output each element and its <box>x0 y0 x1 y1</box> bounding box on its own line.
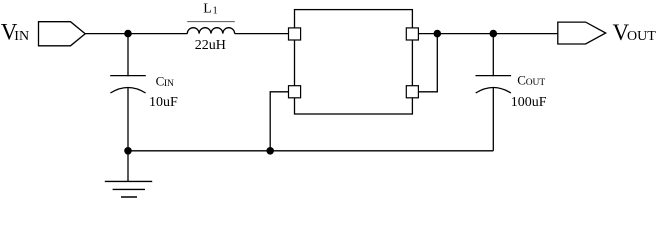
svg-text:IN: IN <box>164 79 174 89</box>
wire IC output pin to VOUT <box>418 33 557 35</box>
capacitor COUT <box>476 76 512 93</box>
label CIN <box>156 73 174 89</box>
wire CIN bottom to ground rail <box>127 88 129 151</box>
svg-text:IN: IN <box>14 29 29 44</box>
svg-text:100uF: 100uF <box>511 95 547 110</box>
IC pin bottom-right <box>406 86 418 98</box>
inductor L1 <box>187 22 235 34</box>
IC pin top-right <box>406 28 418 40</box>
output port connector VOUT <box>558 22 606 44</box>
wire COUT bottom to ground rail <box>492 88 494 151</box>
node junction output/COUT <box>490 30 498 38</box>
wire VIN to inductor <box>85 33 187 35</box>
svg-text:C: C <box>517 73 526 88</box>
net label VIN <box>1 20 29 45</box>
label COUT <box>517 73 545 88</box>
net label VOUT <box>613 20 656 45</box>
svg-text:OUT: OUT <box>627 29 656 44</box>
svg-text:1: 1 <box>213 5 218 16</box>
label L1 <box>203 2 217 17</box>
IC pin bottom-left <box>289 86 301 98</box>
node junction feedback <box>434 30 442 38</box>
wire inductor to IC pin1 <box>235 33 289 35</box>
wire feedback to IC pin <box>418 34 437 92</box>
node junction ground/IC return <box>266 147 274 155</box>
svg-text:L: L <box>203 2 212 17</box>
ground symbol <box>105 151 152 197</box>
IC pin top-left <box>289 28 301 40</box>
input port connector VIN <box>39 22 86 46</box>
node junction input/CIN <box>124 30 132 38</box>
node junction ground/CIN <box>124 147 132 155</box>
wire node to COUT top <box>492 34 494 77</box>
IC U1 body <box>295 10 413 114</box>
svg-text:OUT: OUT <box>526 78 546 88</box>
svg-text:22uH: 22uH <box>195 38 226 53</box>
ground rail wire <box>128 150 493 152</box>
wire IC return pin to ground <box>270 92 288 151</box>
svg-text:10uF: 10uF <box>149 95 178 110</box>
capacitor CIN <box>110 76 146 93</box>
wire node to CIN top <box>127 34 129 77</box>
